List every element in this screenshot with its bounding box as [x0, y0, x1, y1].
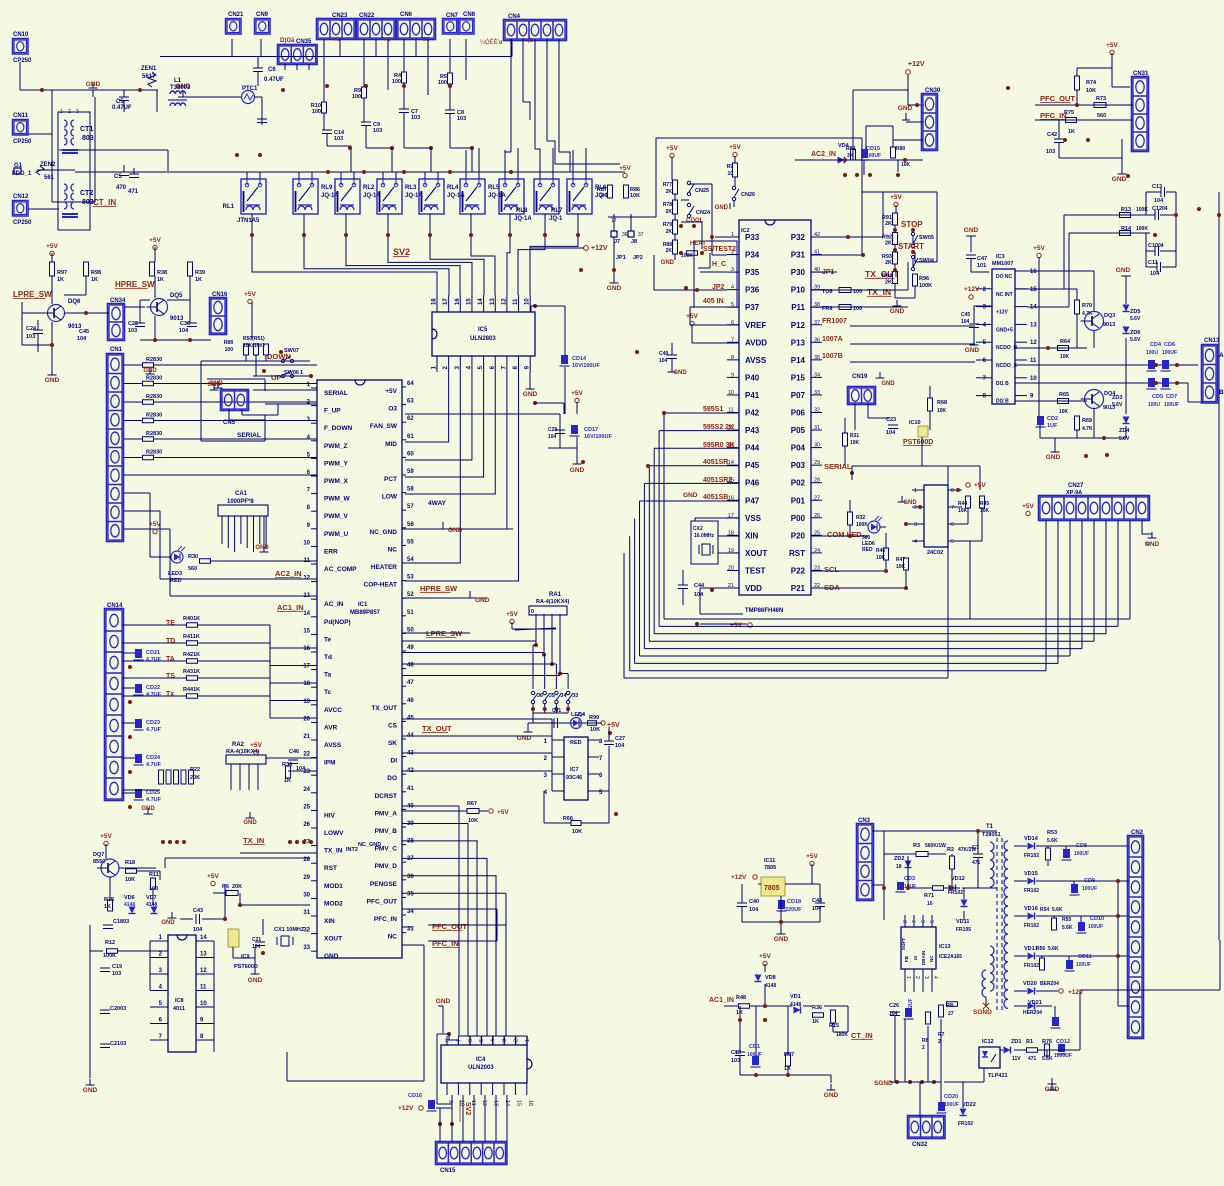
- svg-text:21: 21: [303, 734, 310, 740]
- svg-text:PFC_OUT: PFC_OUT: [367, 898, 397, 905]
- svg-text:1007B: 1007B: [822, 353, 843, 360]
- svg-text:103: 103: [731, 1058, 740, 1064]
- svg-text:61: 61: [407, 434, 414, 440]
- svg-text:13: 13: [200, 952, 207, 958]
- svg-text:CN15: CN15: [440, 1168, 456, 1174]
- svg-text:P37: P37: [745, 303, 760, 312]
- svg-text:R88: R88: [224, 340, 233, 346]
- svg-text:FR102: FR102: [1024, 963, 1039, 969]
- svg-text:27: 27: [948, 1011, 954, 1017]
- svg-text:104: 104: [77, 336, 87, 342]
- svg-text:P06: P06: [791, 409, 806, 418]
- svg-text:63: 63: [407, 399, 414, 405]
- svg-text:4: 4: [491, 1039, 497, 1042]
- svg-text:HIV: HIV: [324, 812, 336, 819]
- svg-text:R421K: R421K: [183, 652, 200, 658]
- svg-text:PMV_A: PMV_A: [375, 810, 398, 817]
- svg-text:IC1: IC1: [358, 602, 368, 608]
- svg-text:3: 3: [76, 109, 79, 115]
- svg-text:C10: C10: [1148, 243, 1158, 249]
- svg-text:P45: P45: [745, 461, 760, 470]
- svg-text:GND: GND: [324, 953, 339, 960]
- svg-text:IC11: IC11: [764, 858, 775, 864]
- svg-text:GND: GND: [83, 1087, 98, 1094]
- svg-text:R80: R80: [896, 146, 905, 152]
- svg-text:P22: P22: [791, 566, 806, 575]
- svg-text:JQ-1: JQ-1: [549, 216, 563, 222]
- svg-text:ERR: ERR: [324, 548, 338, 555]
- svg-text:CT2: CT2: [80, 190, 93, 197]
- svg-text:FR102: FR102: [948, 890, 963, 896]
- svg-text:C19: C19: [112, 964, 122, 970]
- svg-text:RL3: RL3: [405, 185, 417, 191]
- svg-text:29: 29: [303, 875, 310, 881]
- svg-text:+5V: +5V: [250, 742, 262, 749]
- svg-text:10K: 10K: [850, 440, 860, 446]
- svg-text:LED3: LED3: [168, 571, 182, 577]
- svg-text:C40: C40: [749, 899, 759, 905]
- svg-text:R31: R31: [850, 433, 859, 439]
- svg-text:R11: R11: [149, 872, 159, 878]
- svg-text:31: 31: [303, 910, 310, 916]
- svg-text:R71: R71: [924, 893, 934, 899]
- svg-text:CN10: CN10: [13, 32, 29, 38]
- svg-text:1K: 1K: [57, 277, 64, 283]
- svg-text:+12V: +12V: [964, 286, 980, 293]
- svg-text:4148: 4148: [790, 1002, 801, 1008]
- svg-text:CD10: CD10: [1090, 916, 1104, 922]
- svg-text:100UF: 100UF: [1164, 402, 1179, 408]
- svg-text:PMV_C: PMV_C: [375, 846, 398, 853]
- svg-text:PWM_Y: PWM_Y: [324, 460, 349, 467]
- svg-text:+5V: +5V: [666, 145, 678, 152]
- svg-text:470: 470: [116, 185, 127, 191]
- svg-text:104: 104: [193, 927, 203, 933]
- svg-text:JQ-1A: JQ-1A: [363, 193, 381, 199]
- svg-text:VD16: VD16: [1024, 906, 1038, 912]
- svg-text:CN26: CN26: [741, 192, 755, 198]
- svg-text:1000PF*8: 1000PF*8: [227, 499, 254, 505]
- svg-text:C49: C49: [659, 351, 668, 357]
- svg-text:P35: P35: [745, 268, 760, 277]
- svg-text:62: 62: [407, 416, 414, 422]
- svg-text:5: 5: [479, 1039, 485, 1042]
- svg-text:1: 1: [905, 976, 911, 979]
- svg-text:6: 6: [921, 920, 927, 923]
- svg-text:DRAIN: DRAIN: [921, 951, 926, 965]
- svg-text:DI2 B: DI2 B: [996, 399, 1009, 405]
- svg-text:C5: C5: [114, 174, 122, 180]
- svg-text:JQ-1A: JQ-1A: [514, 216, 532, 222]
- svg-text:1: 1: [525, 1039, 531, 1042]
- svg-text:AC_COMP: AC_COMP: [324, 566, 357, 573]
- svg-text:IC7: IC7: [570, 767, 579, 773]
- svg-text:5.6V: 5.6V: [1130, 337, 1141, 343]
- svg-text:P33: P33: [745, 233, 760, 242]
- svg-text:100UF: 100UF: [1074, 851, 1089, 857]
- svg-text:CP250: CP250: [13, 58, 32, 64]
- svg-text:100UF: 100UF: [944, 1102, 959, 1108]
- svg-text:R56: R56: [1036, 946, 1045, 952]
- svg-text:R67: R67: [467, 801, 477, 807]
- svg-text:R68: R68: [937, 400, 947, 406]
- svg-text:R70: R70: [1082, 303, 1092, 309]
- svg-text:Pd(NOP): Pd(NOP): [324, 619, 351, 626]
- svg-text:CN6: CN6: [400, 12, 413, 18]
- svg-text:561: 561: [44, 175, 55, 181]
- svg-text:JQ-1A: JQ-1A: [321, 193, 339, 199]
- svg-text:IC4: IC4: [476, 1057, 486, 1063]
- svg-text:100: 100: [438, 80, 447, 86]
- svg-text:CD24: CD24: [146, 755, 161, 761]
- svg-text:IC9: IC9: [241, 954, 250, 960]
- svg-text:2K: 2K: [600, 193, 607, 199]
- svg-text:C26: C26: [889, 1003, 899, 1009]
- svg-text:NC: NC: [388, 546, 398, 553]
- svg-text:SV2: SV2: [393, 247, 410, 257]
- svg-text:4148: 4148: [765, 983, 776, 989]
- svg-text:PMV_D: PMV_D: [375, 863, 398, 870]
- svg-text:IC13: IC13: [939, 944, 951, 950]
- svg-text:TD: TD: [166, 638, 175, 645]
- svg-text:R441K: R441K: [183, 687, 200, 693]
- svg-text:43: 43: [407, 751, 414, 757]
- svg-text:22: 22: [303, 752, 310, 758]
- svg-text:GND: GND: [448, 527, 463, 534]
- svg-text:+12V: +12V: [398, 1105, 414, 1112]
- svg-text:F_UP: F_UP: [324, 408, 341, 415]
- svg-text:10K: 10K: [980, 508, 990, 514]
- svg-text:R99: R99: [589, 715, 599, 721]
- svg-text:AC1_IN: AC1_IN: [277, 603, 304, 612]
- svg-text:GND: GND: [143, 368, 157, 374]
- svg-text:CD4: CD4: [1150, 342, 1162, 348]
- svg-text:C6: C6: [268, 67, 276, 73]
- svg-text:ZD1: ZD1: [1011, 1039, 1021, 1045]
- svg-text:57: 57: [407, 504, 414, 510]
- svg-text:P20: P20: [791, 531, 806, 540]
- svg-text:L1: L1: [174, 78, 182, 84]
- svg-text:R1: R1: [1026, 1039, 1033, 1045]
- svg-text:LOWV: LOWV: [324, 830, 344, 837]
- svg-text:100: 100: [312, 109, 321, 115]
- svg-text:ZD5: ZD5: [1130, 309, 1140, 315]
- svg-text:4.7UF: 4.7UF: [146, 727, 162, 733]
- svg-text:CP250: CP250: [13, 220, 32, 226]
- svg-text:52: 52: [407, 592, 414, 598]
- svg-text:CN27: CN27: [1068, 483, 1084, 489]
- svg-text:DQ6: DQ6: [68, 299, 81, 305]
- svg-text:RA2: RA2: [232, 742, 245, 748]
- svg-text:DQ7: DQ7: [93, 852, 104, 858]
- svg-text:O3: O3: [388, 406, 397, 413]
- svg-text:7: 7: [951, 505, 954, 511]
- svg-text:R2830: R2830: [146, 450, 162, 456]
- svg-text:3: 3: [923, 976, 929, 979]
- svg-text:FR105: FR105: [956, 927, 971, 933]
- svg-text:P36: P36: [745, 286, 760, 295]
- svg-text:103: 103: [411, 115, 420, 121]
- svg-text:R64: R64: [1060, 339, 1071, 345]
- svg-text:MM1007: MM1007: [992, 261, 1013, 267]
- svg-text:104: 104: [886, 430, 896, 436]
- svg-text:+12V: +12V: [996, 310, 1008, 316]
- svg-text:CN24: CN24: [696, 210, 711, 216]
- svg-text:36: 36: [407, 874, 414, 880]
- svg-text:5: 5: [930, 920, 936, 923]
- svg-text:ZD6: ZD6: [1130, 330, 1140, 336]
- svg-text:2: 2: [68, 109, 71, 115]
- svg-text:+5V: +5V: [1033, 245, 1045, 252]
- svg-text:2.2UF: 2.2UF: [908, 998, 914, 1012]
- svg-text:D)Oā: D)Oā: [280, 38, 295, 44]
- svg-text:C43: C43: [193, 908, 203, 914]
- svg-text:CD21: CD21: [146, 650, 160, 656]
- svg-text:34: 34: [407, 909, 414, 915]
- svg-text:37: 37: [407, 856, 414, 862]
- svg-text:CP250: CP250: [13, 139, 32, 145]
- svg-text:CD20: CD20: [944, 1094, 958, 1100]
- svg-text:PWM_U: PWM_U: [324, 531, 349, 538]
- svg-text:VD14: VD14: [1024, 836, 1039, 842]
- svg-text:R401K: R401K: [183, 616, 200, 622]
- svg-text:RST: RST: [324, 865, 337, 872]
- svg-text:24C02: 24C02: [927, 550, 943, 556]
- svg-text:¼Ó: ¼Ó: [332, 36, 340, 43]
- svg-text:100: 100: [225, 347, 234, 353]
- svg-text:64: 64: [407, 381, 414, 387]
- svg-text:14: 14: [303, 611, 310, 617]
- svg-text:405 IN: 405 IN: [703, 298, 724, 305]
- svg-text:C23: C23: [886, 417, 896, 423]
- svg-text:+5V: +5V: [149, 521, 161, 528]
- svg-text:J7: J7: [614, 239, 620, 245]
- svg-text:8: 8: [951, 488, 954, 494]
- svg-text:RL4: RL4: [447, 185, 459, 191]
- svg-text:R54: R54: [1040, 907, 1049, 913]
- svg-text:13: 13: [1030, 322, 1037, 328]
- svg-text:PWM_X: PWM_X: [324, 478, 349, 485]
- svg-text:GND: GND: [161, 920, 175, 926]
- svg-text:55: 55: [407, 539, 414, 545]
- svg-text:103: 103: [112, 971, 121, 977]
- svg-text:AVDD: AVDD: [745, 338, 767, 347]
- svg-text:VSS: VSS: [745, 514, 762, 523]
- svg-text:R15: R15: [829, 1023, 839, 1029]
- svg-text:NC: NC: [929, 955, 934, 962]
- svg-text:RL9: RL9: [321, 185, 333, 191]
- svg-text:2K: 2K: [666, 248, 673, 254]
- svg-text:10UF: 10UF: [904, 884, 916, 890]
- svg-text:GND: GND: [570, 467, 585, 474]
- svg-text:11: 11: [1030, 358, 1037, 364]
- svg-text:INT2: INT2: [346, 847, 358, 853]
- svg-text:41: 41: [407, 786, 414, 792]
- svg-text:XIN: XIN: [745, 531, 759, 540]
- svg-text:P40: P40: [745, 373, 760, 382]
- svg-text:103: 103: [128, 328, 137, 334]
- svg-text:DQ5: DQ5: [170, 293, 183, 299]
- svg-text:R50(R51): R50(R51): [243, 336, 265, 342]
- svg-text:CD3: CD3: [904, 876, 915, 882]
- svg-text:R32: R32: [856, 515, 865, 521]
- svg-text:10K: 10K: [901, 162, 911, 168]
- svg-text:CT_IN: CT_IN: [93, 198, 116, 207]
- svg-text:11: 11: [200, 985, 207, 991]
- svg-text:P31: P31: [791, 251, 806, 260]
- svg-text:FAN_SW: FAN_SW: [370, 423, 398, 430]
- svg-text:A: A: [1219, 352, 1224, 359]
- svg-text:DO NC: DO NC: [996, 274, 1013, 280]
- svg-text:+5V: +5V: [207, 873, 219, 880]
- svg-text:1: 1: [60, 109, 63, 115]
- svg-text:START: START: [898, 242, 924, 251]
- svg-text:AC_IN: AC_IN: [324, 601, 344, 608]
- svg-text:R74: R74: [1086, 80, 1097, 86]
- svg-text:GND: GND: [661, 260, 675, 266]
- svg-text:R12: R12: [105, 940, 115, 946]
- svg-text:CD7: CD7: [1166, 394, 1177, 400]
- svg-text:45: 45: [407, 715, 414, 721]
- svg-text:SV2: SV2: [464, 1102, 471, 1115]
- svg-text:IPM: IPM: [324, 760, 336, 767]
- svg-text:GND: GND: [1046, 454, 1061, 461]
- svg-text:RED: RED: [862, 547, 873, 553]
- svg-text:+12V: +12V: [731, 874, 747, 881]
- svg-text:DI: DI: [391, 758, 398, 765]
- svg-text:R39: R39: [195, 270, 205, 276]
- svg-text:10: 10: [200, 1001, 207, 1007]
- svg-text:GND: GND: [673, 370, 687, 376]
- svg-text:471: 471: [972, 860, 981, 866]
- svg-text:51: 51: [407, 610, 414, 616]
- svg-text:Te: Te: [324, 636, 331, 643]
- svg-text:30: 30: [303, 892, 310, 898]
- svg-text:C27: C27: [615, 736, 625, 742]
- svg-text:16: 16: [527, 1100, 533, 1106]
- svg-text:FR102: FR102: [1024, 923, 1039, 929]
- svg-text:+5V: +5V: [1106, 42, 1118, 49]
- svg-text:18: 18: [896, 864, 902, 870]
- svg-text:TLP421: TLP421: [988, 1073, 1008, 1079]
- svg-text:18: 18: [303, 681, 310, 687]
- svg-text:R53: R53: [1047, 830, 1057, 836]
- svg-text:XOUT: XOUT: [745, 549, 767, 558]
- svg-text:5.6V: 5.6V: [1112, 402, 1123, 408]
- svg-text:10: 10: [1030, 376, 1037, 382]
- svg-text:C11: C11: [1148, 260, 1158, 266]
- svg-text:T1: T1: [986, 824, 994, 830]
- svg-text:2K: 2K: [666, 209, 673, 215]
- svg-text:R2830: R2830: [146, 394, 162, 400]
- svg-text:R6: R6: [222, 884, 229, 890]
- svg-text:NC_GND: NC_GND: [370, 529, 398, 536]
- svg-text:103: 103: [373, 128, 382, 134]
- svg-text:12: 12: [1030, 340, 1037, 346]
- svg-text:+5V: +5V: [619, 165, 631, 172]
- svg-text:GND: GND: [436, 998, 451, 1005]
- svg-text:VD7: VD7: [146, 895, 157, 901]
- svg-text:R34: R34: [282, 762, 293, 768]
- svg-text:TX_IN: TX_IN: [867, 287, 891, 297]
- svg-text:R78: R78: [663, 202, 672, 208]
- svg-text:2K: 2K: [885, 260, 892, 266]
- svg-text:7805: 7805: [764, 885, 780, 892]
- svg-text:SERIAL: SERIAL: [237, 432, 261, 439]
- svg-text:20: 20: [303, 716, 310, 722]
- svg-text:104: 104: [548, 434, 557, 440]
- svg-text:100K: 100K: [681, 253, 693, 259]
- svg-text:+12V: +12V: [591, 245, 608, 252]
- svg-text:100UF: 100UF: [1082, 886, 1097, 892]
- svg-text:P11: P11: [791, 303, 805, 312]
- svg-text:4051SR: 4051SR: [703, 459, 728, 466]
- svg-text:Td: Td: [324, 654, 332, 661]
- svg-text:CD1: CD1: [749, 1044, 760, 1050]
- svg-text:CN8: CN8: [463, 12, 476, 18]
- svg-text:R96: R96: [919, 276, 929, 282]
- svg-text:Ta: Ta: [324, 672, 331, 679]
- svg-text:VDD: VDD: [745, 584, 762, 593]
- svg-text:FR102: FR102: [1024, 888, 1039, 894]
- svg-text:PFC_IN: PFC_IN: [432, 939, 459, 948]
- svg-text:VREF: VREF: [745, 321, 766, 330]
- svg-text:54: 54: [407, 557, 414, 563]
- svg-text:R77: R77: [663, 182, 672, 188]
- svg-text:GND: GND: [715, 205, 729, 211]
- svg-text:UP: UP: [271, 373, 281, 382]
- svg-text:JP2: JP2: [633, 255, 643, 261]
- svg-text:33: 33: [303, 945, 310, 951]
- svg-text:P47: P47: [745, 496, 760, 505]
- svg-text:LPRE_SW: LPRE_SW: [13, 290, 52, 299]
- svg-text:+5V: +5V: [571, 390, 583, 397]
- svg-text:60: 60: [407, 451, 414, 457]
- svg-text:TE: TE: [166, 620, 175, 627]
- svg-text:MID: MID: [385, 441, 397, 448]
- svg-text:GND: GND: [898, 105, 913, 112]
- svg-text:NC: NC: [388, 934, 398, 941]
- svg-text:100UF: 100UF: [866, 153, 881, 159]
- svg-text:10K: 10K: [1059, 409, 1069, 415]
- svg-text:32: 32: [303, 928, 310, 934]
- svg-text:FR1007: FR1007: [822, 318, 847, 325]
- svg-text:VD8: VD8: [765, 975, 776, 981]
- svg-text:LOW: LOW: [382, 494, 398, 501]
- svg-text:R48: R48: [736, 995, 746, 1001]
- svg-text:104: 104: [749, 907, 759, 913]
- svg-text:P04: P04: [791, 444, 806, 453]
- svg-text:R18: R18: [125, 860, 135, 866]
- svg-text:XOUT: XOUT: [324, 936, 342, 943]
- svg-text:COOL: COOL: [686, 218, 704, 224]
- svg-text:ULN2003: ULN2003: [468, 1065, 494, 1071]
- svg-text:1UF: 1UF: [1047, 423, 1058, 429]
- svg-text:R2830: R2830: [146, 413, 162, 419]
- svg-text:GND: GND: [1112, 176, 1127, 183]
- svg-text:CD11: CD11: [1078, 954, 1092, 960]
- svg-text:AVR: AVR: [324, 724, 338, 731]
- svg-text:CN13: CN13: [1204, 338, 1220, 344]
- svg-text:PFC_OUT: PFC_OUT: [432, 922, 467, 931]
- svg-text:7: 7: [912, 920, 918, 923]
- svg-text:2K: 2K: [666, 189, 673, 195]
- svg-text:IC3: IC3: [996, 254, 1005, 260]
- svg-text:P13: P13: [791, 338, 806, 347]
- svg-text:CX1 10MHZ: CX1 10MHZ: [274, 927, 305, 933]
- svg-text:104: 104: [961, 319, 970, 325]
- svg-text:R3: R3: [913, 843, 920, 849]
